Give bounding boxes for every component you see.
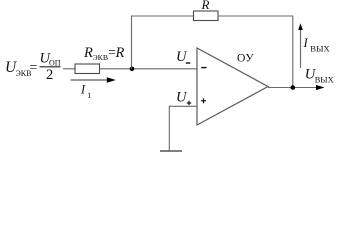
feedback wire: top right segment	[218, 15, 293, 17]
inverting input minus sign	[201, 67, 206, 69]
svg-text:ВЫХ: ВЫХ	[310, 44, 330, 54]
output wire	[268, 87, 317, 89]
svg-text:U: U	[176, 90, 188, 106]
svg-text:=: =	[30, 61, 38, 76]
svg-text:ЭКВ: ЭКВ	[93, 53, 109, 62]
wire: non-inverting input	[169, 105, 197, 107]
svg-text:ВЫХ: ВЫХ	[315, 76, 334, 85]
resistor R (feedback)	[194, 11, 219, 21]
label I1	[80, 83, 91, 101]
label U+ (non-inverting input voltage)	[176, 90, 191, 106]
feedback wire: left vertical	[131, 16, 133, 69]
feedback wire: right vertical	[292, 16, 294, 88]
wire: ground drop	[168, 106, 170, 151]
current arrow I1	[71, 77, 116, 83]
value label R_ЭКВ = R	[83, 45, 125, 62]
svg-text:1: 1	[87, 91, 91, 100]
wire: source to R_ЭКВ	[63, 68, 75, 70]
ground	[160, 150, 182, 152]
svg-text:R: R	[201, 0, 210, 12]
source label U_ЭКВ = U_ОП/2	[5, 50, 61, 83]
wire: R_ЭКВ to inverting input	[100, 68, 198, 70]
resistor R_ЭКВ	[75, 64, 100, 74]
label U− (inverting input voltage)	[176, 49, 190, 65]
output arrowhead	[316, 85, 325, 90]
svg-text:ОУ: ОУ	[237, 52, 254, 65]
current arrow I_ВЫХ	[298, 23, 303, 68]
svg-text:I: I	[80, 83, 86, 97]
op-amp U1 triangle	[197, 48, 268, 125]
svg-text:I: I	[303, 36, 309, 50]
non-inverting input plus sign	[201, 98, 206, 103]
node: output junction	[291, 85, 296, 90]
svg-text:R: R	[83, 45, 93, 61]
svg-text:2: 2	[46, 67, 53, 83]
feedback wire: top left segment	[131, 15, 194, 17]
svg-text:R: R	[115, 45, 125, 61]
label U_ВЫХ	[305, 66, 334, 84]
label I_ВЫХ	[303, 36, 331, 54]
node: inverting input junction	[130, 67, 135, 72]
